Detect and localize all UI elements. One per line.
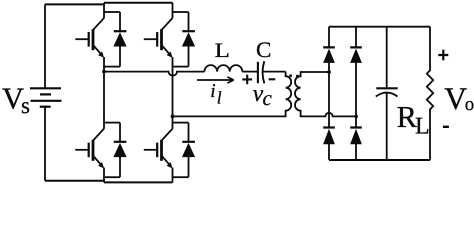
svg-text:o: o	[465, 94, 474, 115]
svg-text:c: c	[263, 86, 273, 110]
svg-text:i: i	[210, 81, 215, 102]
svg-text:L: L	[215, 40, 230, 62]
svg-text:s: s	[21, 93, 30, 118]
svg-text:V: V	[444, 81, 467, 116]
svg-text:C: C	[256, 37, 271, 62]
svg-text:L: L	[415, 113, 430, 139]
svg-text:l: l	[217, 88, 222, 108]
